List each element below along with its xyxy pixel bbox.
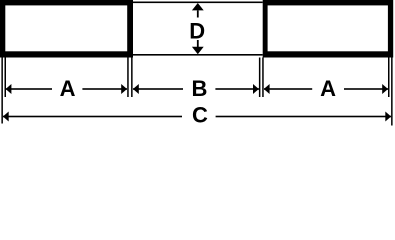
svg-text:A: A bbox=[60, 76, 76, 101]
svg-text:C: C bbox=[192, 102, 208, 127]
svg-text:A: A bbox=[320, 76, 336, 101]
svg-text:B: B bbox=[191, 76, 207, 101]
svg-text:D: D bbox=[189, 19, 205, 44]
